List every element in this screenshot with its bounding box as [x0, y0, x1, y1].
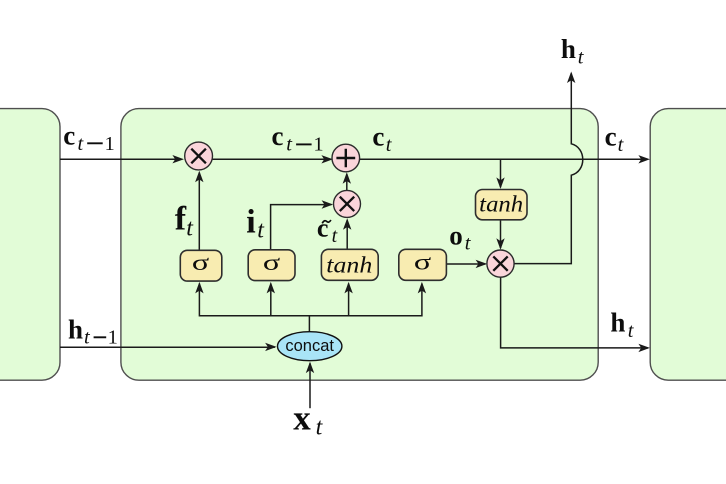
wire bus stub to concat [308, 316, 310, 332]
svg-text:tanh: tanh [479, 191, 523, 216]
arrowhead bus into sigma3 [418, 282, 426, 294]
cell block next (right green box) [650, 109, 726, 381]
cell block previous (left green box) [0, 109, 60, 381]
arrowhead into forget multiply bottom [195, 171, 203, 183]
arrowhead into add bottom [343, 172, 351, 184]
forget gate multiply circle [185, 142, 213, 170]
arrowhead bus into tanh [344, 282, 352, 294]
wire junction down to tanh [500, 159, 502, 187]
arrowhead h_t into next block [638, 344, 650, 352]
svg-text:σ: σ [192, 250, 210, 275]
wire output multiply down to h_t output [501, 277, 648, 348]
wire c_t output [360, 158, 648, 160]
wire o_t sigma to output multiply [446, 263, 485, 265]
cell block current (middle green box) [121, 109, 598, 381]
add circle [332, 144, 360, 172]
arrowhead into add [321, 155, 333, 163]
arrowhead into concat left [265, 343, 277, 351]
arrowhead into forget multiply [172, 155, 184, 163]
output multiply circle [487, 250, 514, 277]
sigma1 forget gate box [180, 250, 222, 281]
svg-text:σ: σ [414, 250, 432, 275]
arrowhead bus into sigma2 [267, 282, 275, 294]
wire candidate multiply to add [346, 174, 348, 190]
arrowhead c_t into next block [638, 155, 650, 163]
wire h_{t-1} input to concat [60, 346, 275, 348]
wire c_{t-1} input [60, 158, 182, 160]
arrowhead into output multiply left [476, 260, 488, 268]
wire f_t sigma to multiply [198, 173, 200, 251]
tanh output box [476, 190, 528, 220]
svg-text:concat: concat [285, 337, 334, 355]
sigma3 output gate box [399, 249, 447, 280]
arrowhead h_t top [567, 72, 575, 84]
wire multiply to add [213, 158, 332, 160]
wire x_t to concat [309, 363, 311, 408]
arrowhead into candidate multiply left [322, 200, 334, 208]
arrowhead into candidate multiply bottom [343, 218, 351, 230]
sigma2 input gate box [248, 250, 295, 281]
wire bus riser tanh [348, 284, 350, 316]
arrowhead bus into sigma1 [195, 282, 203, 294]
tilde accent [322, 220, 331, 223]
wire bus riser sigma2 [270, 284, 272, 316]
candidate multiply circle [334, 190, 361, 217]
wire candidate tanh to multiply [346, 220, 348, 249]
wire tanh to output multiply [500, 220, 502, 248]
concat ellipse [278, 332, 342, 361]
arrowhead into tanh top [496, 177, 504, 189]
wire concat bus [199, 284, 422, 316]
svg-text:tanh: tanh [326, 253, 372, 278]
wire i_t sigma to candidate multiply [271, 205, 332, 250]
svg-text:σ: σ [263, 250, 281, 275]
wire output multiply up to h_t with hop over c line [514, 73, 583, 263]
arrowhead into output multiply top [496, 238, 504, 250]
arrowhead into concat bottom [306, 362, 314, 374]
tanh candidate gate box [321, 249, 378, 280]
